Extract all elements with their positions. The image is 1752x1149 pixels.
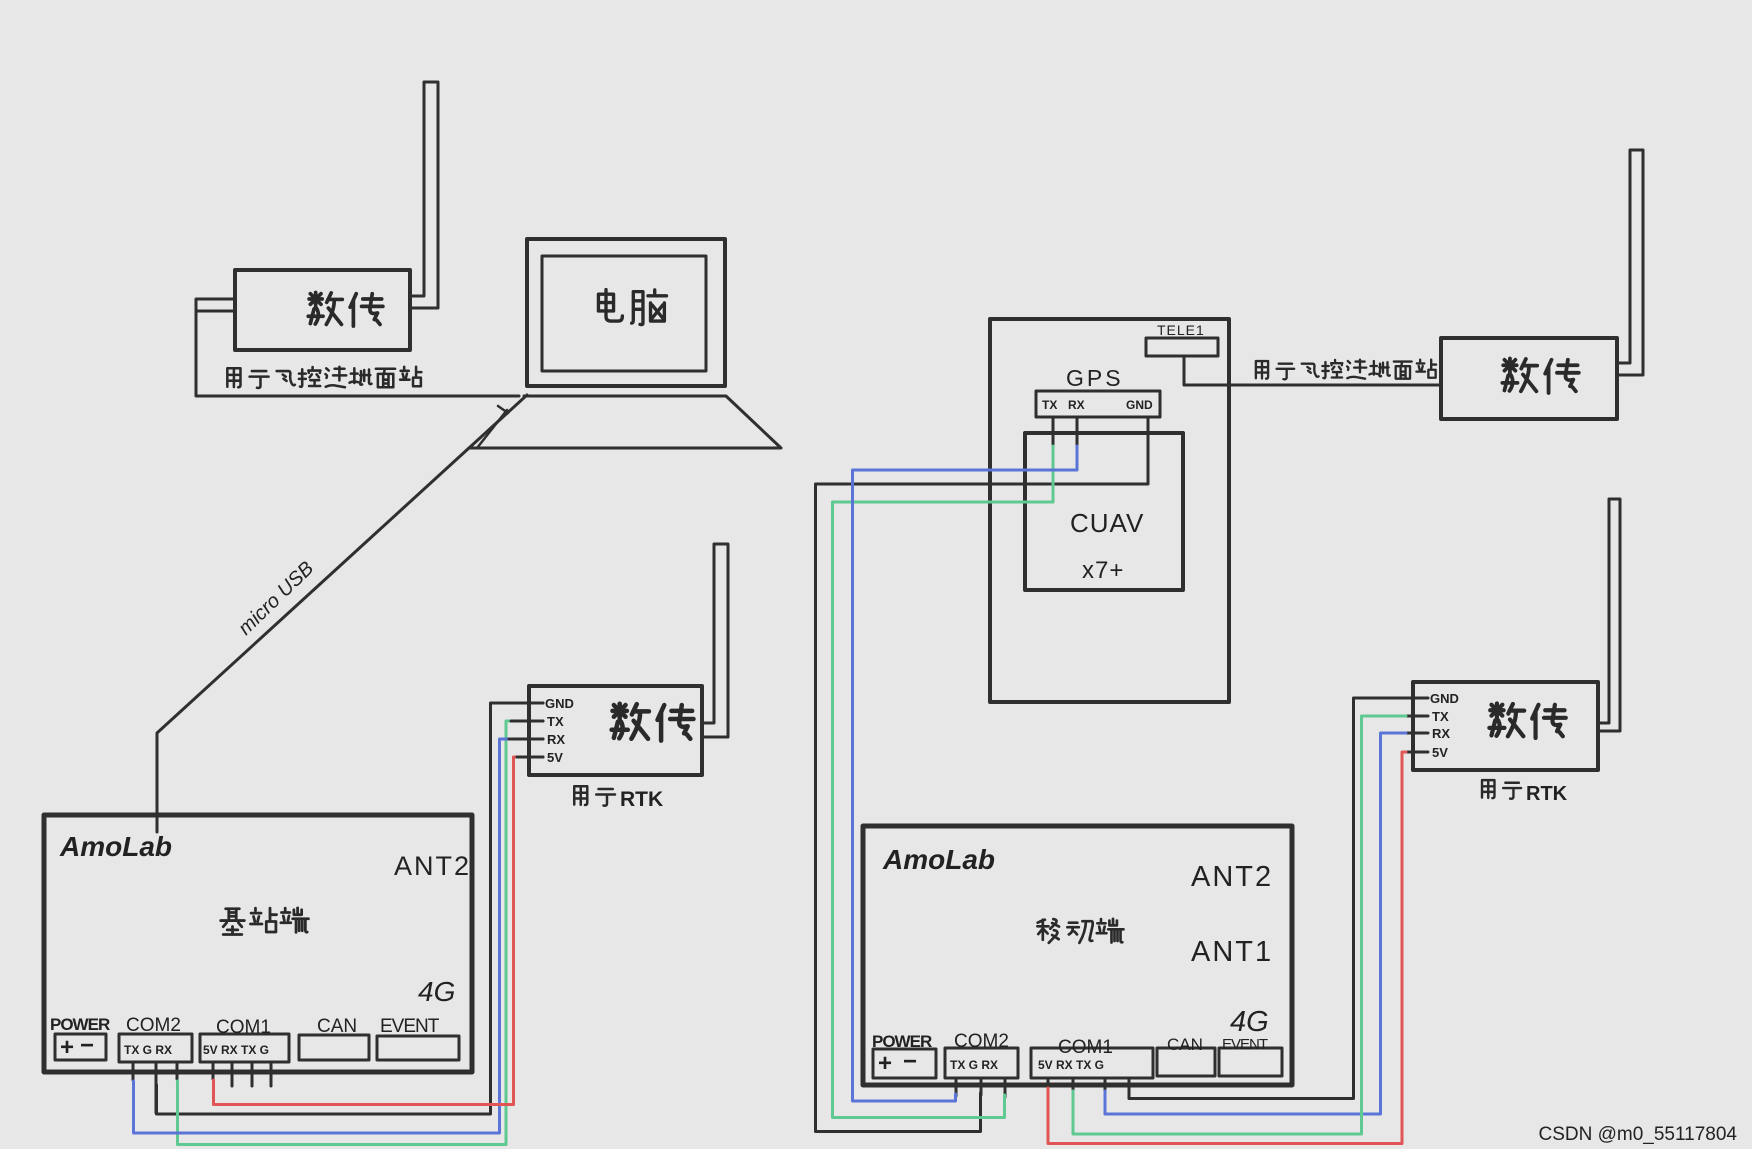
wire RX blue: CUAV GPS RX to mobile COM2 TX [853,446,1078,1101]
wire GND black: left RTK radio to base COM2 G [157,703,544,1114]
svg-text:TELE1: TELE1 [1157,322,1205,338]
radio U1 数传 (ground-station telemetry, top-left) [235,270,410,350]
svg-text:5V RX TX G: 5V RX TX G [1038,1058,1104,1072]
GPS port [1036,391,1160,447]
CUAV x7+ inner module [1025,433,1183,590]
svg-text:+: + [878,1050,892,1077]
EVENT connector (mobile) [1219,1048,1282,1076]
COM1 connector (mobile) [1031,1048,1153,1098]
svg-text:4G: 4G [1230,1006,1269,1038]
POWER connector (mobile) [873,1049,936,1078]
POWER connector (base) [55,1034,106,1060]
CUAV x7+ flight controller outer board [990,319,1229,702]
svg-text:COM2: COM2 [954,1031,1009,1052]
wire GND black: CUAV GPS GND down-around to mobile COM2 G [816,417,1149,1132]
svg-text:5V RX TX G: 5V RX TX G [203,1043,269,1057]
svg-text:5V: 5V [547,750,563,765]
label 用于RTK (left) [574,786,615,805]
wire TELE1 to radio U4 [1184,356,1441,385]
svg-text:x7+: x7+ [1082,557,1124,584]
wire TX blue: mobile COM1 TX to right RTK radio RX [1105,733,1406,1114]
micro USB plug at laptop [477,406,508,448]
svg-text:CSDN @m0_55117804: CSDN @m0_55117804 [1539,1124,1738,1145]
svg-text:5V: 5V [1432,745,1448,760]
COM1 connector (base) [200,1034,289,1086]
COM2 connector (base) [119,1034,192,1113]
svg-text:+: + [60,1034,74,1061]
radio U4 数传 (air telemetry, top-right) [1441,338,1617,419]
wire micro USB cable laptop to base AmoLab [157,395,527,832]
svg-text:TX: TX [1042,398,1057,412]
label 用于RTK (right) [1482,780,1521,799]
svg-text:GND: GND [1430,691,1459,706]
svg-text:EVENT: EVENT [380,1016,440,1037]
svg-text:RX: RX [1068,398,1085,412]
TELE1 port [1146,338,1218,356]
AmoLab mobile station 移动端 box [863,826,1292,1085]
label 用于飞控连地面站 (right) [1256,360,1436,380]
label 用于飞控连地面站 (left) [227,367,421,388]
EVENT connector (base) [377,1036,459,1060]
svg-text:AmoLab: AmoLab [59,831,172,862]
svg-text:GPS: GPS [1066,365,1124,391]
svg-text:RTK: RTK [1526,783,1568,805]
laptop 电脑 [469,239,781,448]
svg-text:ANT2: ANT2 [394,851,471,881]
svg-text:−: − [80,1032,94,1059]
svg-text:TX G RX: TX G RX [950,1058,998,1072]
wire RX blue: left RTK radio to base COM2 TX [134,739,512,1133]
svg-text:EVENT: EVENT [1222,1036,1268,1053]
stub black pins left RTK radio [509,721,543,757]
svg-text:CUAV: CUAV [1070,508,1144,538]
svg-text:COM2: COM2 [126,1015,181,1036]
svg-text:ANT2: ANT2 [1191,861,1273,893]
svg-text:COM1: COM1 [1058,1037,1113,1058]
svg-text:TX: TX [1432,709,1449,724]
wire RX green: mobile COM1 RX to right RTK radio TX [1073,716,1406,1134]
svg-text:−: − [903,1048,917,1075]
svg-text:POWER: POWER [872,1032,932,1051]
radio U2 数传 用于RTK (left) [529,686,702,775]
svg-text:ANT1: ANT1 [1191,936,1273,968]
svg-text:TX: TX [547,714,564,729]
wire 5V red: left RTK radio to base COM1 5V [214,757,518,1105]
svg-text:CAN: CAN [317,1016,357,1037]
wire TX green: left RTK radio to base COM2 RX [178,721,514,1145]
svg-text:GND: GND [1126,398,1153,412]
svg-text:AmoLab: AmoLab [882,844,995,875]
antenna of U3 [1598,499,1620,731]
COM2 connector (mobile) [945,1048,1018,1097]
svg-text:CAN: CAN [1167,1035,1203,1054]
CAN connector (base) [299,1035,369,1060]
svg-text:COM1: COM1 [216,1017,271,1038]
svg-text:GND: GND [545,696,574,711]
wire 5V red: mobile COM1 5V to right RTK radio 5V [1048,752,1406,1144]
radio U3 数传 用于RTK (right) [1404,682,1598,770]
svg-text:RTK: RTK [620,788,663,811]
svg-text:4G: 4G [418,976,455,1007]
wire G black: mobile COM1 G to right RTK radio GND [1129,698,1413,1099]
wire U1 to laptop (serial cable) [196,299,519,396]
svg-text:RX: RX [1432,726,1450,741]
CAN connector (mobile) [1157,1048,1215,1076]
antenna of U1 [410,82,438,308]
antenna of U4 [1617,150,1643,375]
svg-text:RX: RX [547,732,565,747]
antenna of U2 [702,544,728,737]
AmoLab base station 基站端 box [44,815,472,1072]
wire TX green: CUAV GPS TX to mobile COM2 RX [833,446,1054,1118]
svg-text:TX G RX: TX G RX [124,1043,172,1057]
